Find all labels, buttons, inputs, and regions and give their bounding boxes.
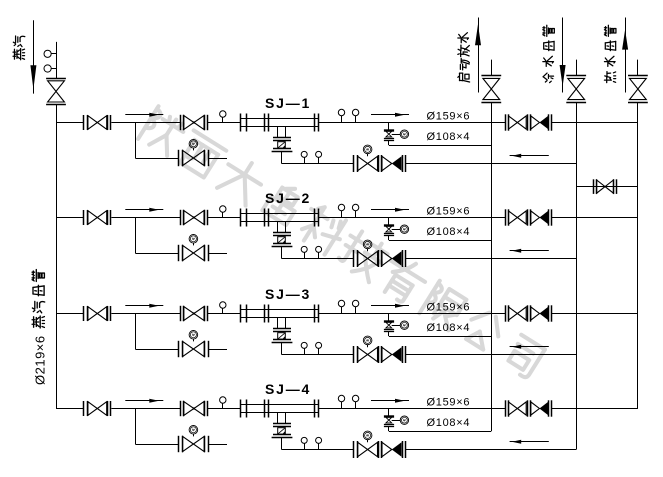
- wire: row1 drain valve to bubble: [392, 134, 401, 136]
- flow arrow right row1 (outlet): [371, 113, 409, 117]
- wire: row2 main pipe seg B: [111, 217, 180, 219]
- wire: row3 lower water line seg A: [282, 354, 354, 356]
- wire: row4 main pipe seg D: [319, 408, 506, 410]
- valve GV1a: row1 inlet gate valve: [84, 115, 111, 130]
- label: SJ-3 tag: [265, 286, 311, 302]
- label: SJ-4 tag: [265, 381, 311, 397]
- wire: row2 main pipe seg E: [551, 217, 638, 219]
- wire: row2 HX drain twin drop: [278, 221, 286, 232]
- wire: row2 bypass line left: [135, 253, 178, 255]
- wire: stub above cold water main (冷水母管) valve: [576, 60, 578, 76]
- wire: row2 relief stem upper: [388, 218, 390, 225]
- valve CK4a: row4 water line check valve: [382, 441, 406, 458]
- leader line for hot water main (热水母管): [625, 18, 627, 93]
- leader line for cold water main (冷水母管): [562, 18, 564, 93]
- wire: row3 drain valve to bubble: [392, 325, 401, 327]
- instrument bubble row2 on drain valve: [400, 225, 408, 233]
- svg-text:Ø159×6: Ø159×6: [427, 205, 471, 217]
- wire: row4 drain valve to bubble: [392, 420, 401, 422]
- steam trap row1 flanges and body: [272, 138, 293, 152]
- wire: row4 relief stem lower: [388, 426, 390, 431]
- wire: row1 main pipe seg B: [111, 122, 180, 124]
- wire: row1 main pipe seg C: [208, 122, 241, 124]
- svg-text:Ø108×4: Ø108×4: [427, 417, 471, 429]
- label: steam (蒸汽) vertical text: [13, 36, 25, 60]
- flow arrow right row1 (inlet): [125, 113, 163, 117]
- valve GV3a: row3 inlet gate valve: [84, 306, 111, 321]
- svg-text:SJ—2: SJ—2: [265, 190, 311, 206]
- watermark: 陕西大禹科技有限公司 diagonal: [138, 106, 545, 379]
- instrument bubble row3 on drain valve: [400, 321, 408, 329]
- valve CK4b: row4 outlet check valve: [531, 400, 552, 416]
- valve CK2a: row2 water line check valve: [382, 250, 406, 267]
- wire: row1 relief stem upper: [388, 123, 390, 130]
- label: Ø108×4 row2: [427, 226, 471, 238]
- label: SJ-1 tag: [265, 95, 311, 111]
- wire: stub gauge lower to pipe: [51, 68, 56, 70]
- flow arrow right row4 (outlet): [371, 399, 409, 403]
- wire: row2 lower water line seg A: [282, 258, 354, 260]
- svg-text:Ø108×4: Ø108×4: [427, 131, 471, 143]
- valve CK1b: row1 outlet check valve: [531, 114, 552, 130]
- valve CV2: row2 regulating valve: [181, 210, 208, 225]
- valve GV2b: row2 outlet gate valve: [506, 209, 531, 225]
- actuator M on row3 water motor valve: [363, 336, 372, 347]
- flow arrow right row2 (outlet): [371, 208, 409, 212]
- actuator M on row4 water motor valve: [363, 431, 372, 442]
- wire: row1 main pipe seg E: [551, 122, 638, 124]
- wire: row1 bypass line right end: [208, 158, 227, 160]
- actuator M on row2 bypass valve: [189, 235, 198, 246]
- gauge row2 lower line 2: [316, 246, 322, 258]
- wire: startup drain column: [491, 102, 493, 431]
- valve RV2: row2 small drain valve: [384, 226, 394, 236]
- flow arrow up on hot water main (热水母管) leader: [622, 30, 628, 50]
- wire: row3 Ø108 drain line: [389, 336, 492, 338]
- wire: row4 lower water line seg A: [282, 449, 354, 451]
- wire: row3 relief stem upper: [388, 314, 390, 321]
- wire: row1 bypass line left: [135, 158, 178, 160]
- wire: row4 main pipe seg E: [551, 408, 638, 410]
- wire: stub above startup drain (启动放水) valve: [491, 60, 493, 76]
- valve V0: steam inlet gate valve (vertical): [46, 79, 66, 105]
- wire: stub gauge upper to pipe: [51, 53, 56, 55]
- valve CK3b: row3 outlet check valve: [531, 305, 552, 321]
- wire: row4 trap outlet drop: [281, 437, 283, 449]
- valve BV3: row3 motor bypass valve: [179, 341, 209, 357]
- leader line for steam label: [33, 20, 35, 93]
- valve GV3b: row3 outlet gate valve: [506, 305, 531, 321]
- wire: row1 main pipe seg D: [319, 122, 506, 124]
- wire: row1 lower water line seg A: [282, 163, 354, 165]
- label: cold water main (冷水母管) vertical text: [543, 25, 554, 82]
- gauge row1 outlet 2: [352, 109, 358, 122]
- valve MV1: row1 motor valve on water line: [354, 155, 382, 172]
- gauge PI row4 after regulating valve: [220, 397, 226, 409]
- gauge row4 outlet 2: [352, 395, 358, 408]
- valve GV4a: row4 inlet gate valve: [84, 401, 111, 416]
- gauge row1 lower line 2: [316, 151, 322, 163]
- valve GV1b: row1 outlet gate valve: [506, 114, 531, 130]
- instrument bubble row4 on drain valve: [400, 416, 408, 424]
- wire: row4 Ø108 drain line: [389, 431, 492, 433]
- valve BV1: row1 motor bypass valve: [179, 150, 209, 166]
- label: hot water main (热水母管) vertical text: [604, 25, 615, 82]
- wire: row4 bypass line right end: [208, 444, 227, 446]
- flow arrow left row4 (cold water in): [510, 440, 549, 444]
- wire: row2 bypass line right end: [208, 253, 227, 255]
- wire: row2 relief stem lower: [388, 235, 390, 240]
- valve CK1a: row1 water line check valve: [382, 155, 406, 172]
- wire: row3 main pipe seg A: [56, 313, 83, 315]
- valve CV3: row3 regulating valve: [181, 306, 208, 321]
- wire: row2 lower water line seg B: [405, 258, 576, 260]
- gauge row1 lower line 1: [301, 151, 307, 163]
- flow arrow right row3 (inlet): [125, 304, 163, 308]
- label: SJ-2 tag: [265, 190, 311, 206]
- wire: row4 lower water line seg B: [405, 449, 576, 451]
- gauge PI row3 after regulating valve: [220, 302, 226, 314]
- svg-text:Ø108×4: Ø108×4: [427, 322, 471, 334]
- valve GV2a: row2 inlet gate valve: [84, 210, 111, 225]
- gauge row2 outlet 2: [352, 204, 358, 217]
- wire: row4 HX drain twin drop: [278, 412, 286, 423]
- svg-text:Ø159×6: Ø159×6: [427, 396, 471, 408]
- flow arrow left row1 (cold water in): [510, 154, 549, 158]
- valve: hot water main (热水母管) isolation valve (vertical): [628, 76, 648, 103]
- valve RV4: row4 small drain valve: [384, 417, 394, 427]
- wire: row1 relief stem lower: [388, 140, 390, 145]
- gauge row4 lower line 1: [301, 437, 307, 449]
- svg-text:Ø159×6: Ø159×6: [427, 110, 471, 122]
- wire: row4 bypass line left: [135, 444, 178, 446]
- heat exchanger SJ-3 body: [240, 305, 318, 323]
- wire: row3 relief stem lower: [388, 331, 390, 336]
- wire: row2 drain valve to bubble: [392, 229, 401, 231]
- svg-text:Ø108×4: Ø108×4: [427, 226, 471, 238]
- wire: row3 bypass branch down: [135, 314, 137, 350]
- valve: cold water main (冷水母管) isolation valve (vertical): [566, 76, 586, 103]
- gauge row2 outlet 1: [338, 204, 344, 217]
- wire: row3 bypass line right end: [208, 349, 227, 351]
- label: Ø159×6 row4: [427, 396, 471, 408]
- gauge row3 lower line 2: [316, 342, 322, 354]
- valve CK3a: row3 water line check valve: [382, 346, 406, 363]
- wire: row2 Ø108 drain line: [389, 240, 492, 242]
- wire: cold water main column: [576, 102, 578, 449]
- flow arrow up on startup drain (启动放水) leader: [475, 24, 481, 45]
- label: Ø108×4 row3: [427, 322, 471, 334]
- flow arrow right row2 (inlet): [125, 208, 163, 212]
- svg-text:SJ—1: SJ—1: [265, 95, 311, 111]
- wire: row4 relief stem upper: [388, 409, 390, 416]
- instrument bubble row1 on drain valve: [400, 130, 408, 138]
- gauge row3 outlet 1: [338, 300, 344, 313]
- wire: row4 main pipe seg B: [111, 408, 180, 410]
- wire: row1 main pipe seg A: [56, 122, 83, 124]
- heat exchanger SJ-4 body: [240, 400, 318, 418]
- wire: row2 main pipe seg D: [319, 217, 506, 219]
- valve MV3: row3 motor valve on water line: [354, 346, 382, 363]
- steam trap row4 flanges and body: [272, 424, 293, 438]
- label: Ø219×6 steam main (蒸汽母管) vertical: [32, 270, 47, 386]
- svg-text:Ø219×6: Ø219×6: [33, 335, 48, 385]
- valve: mains bypass gate valve: [594, 179, 617, 194]
- gauge row4 lower line 2: [316, 437, 322, 449]
- wire: row1 bypass branch down: [135, 123, 137, 159]
- valve CK2b: row2 outlet check valve: [531, 209, 552, 225]
- valve BV4: row4 motor bypass valve: [179, 436, 209, 452]
- svg-text:SJ—4: SJ—4: [265, 381, 311, 397]
- valve CV4: row4 regulating valve: [181, 401, 208, 416]
- actuator M on row1 water motor valve: [363, 145, 372, 156]
- wire: row3 bypass line left: [135, 349, 178, 351]
- wire: row2 main pipe seg C: [208, 217, 241, 219]
- flow arrow right row4 (inlet): [125, 399, 163, 403]
- wire: hot water main column: [637, 102, 639, 408]
- heat exchanger SJ-2 body: [240, 209, 318, 227]
- actuator M on row1 bypass valve: [189, 140, 198, 151]
- valve GV4b: row4 outlet gate valve: [506, 400, 531, 416]
- flow arrow down on cold water main (冷水母管) leader: [560, 65, 566, 87]
- valve RV1: row1 small drain valve: [384, 131, 394, 141]
- svg-text:SJ—3: SJ—3: [265, 286, 311, 302]
- label: Ø159×6 row2: [427, 205, 471, 217]
- wire: row4 main pipe seg C: [208, 408, 241, 410]
- label: Ø159×6 row1: [427, 110, 471, 122]
- label: Ø159×6 row3: [427, 301, 471, 313]
- gauge row3 lower line 1: [301, 342, 307, 354]
- flow arrow down on steam leader: [30, 65, 36, 89]
- actuator M on row4 bypass valve: [189, 426, 198, 437]
- flow arrow left row2 (cold water in): [510, 249, 549, 253]
- wire: row2 main pipe seg A: [56, 217, 83, 219]
- valve MV2: row2 motor valve on water line: [354, 250, 382, 267]
- wire: row1 lower water line seg B: [405, 163, 576, 165]
- label: startup drain (启动放水) vertical text: [458, 33, 470, 82]
- actuator M on row2 water motor valve: [363, 240, 372, 251]
- wire: row2 bypass branch down: [135, 218, 137, 254]
- flow arrow left row3 (cold water in): [510, 345, 549, 349]
- wire: row3 main pipe seg E: [551, 313, 638, 315]
- wire: row4 main pipe seg A: [56, 408, 83, 410]
- gauge PI on steam inlet (lower): [44, 65, 51, 72]
- wire: row1 Ø108 drain line: [389, 145, 492, 147]
- wire: row3 main pipe seg B: [111, 313, 180, 315]
- wire: steam main vertical pipe: [56, 105, 58, 409]
- gauge PI row2 after regulating valve: [220, 206, 226, 218]
- wire: row1 HX drain twin drop: [278, 126, 286, 137]
- wire: row4 bypass branch down: [135, 409, 137, 445]
- gauge row3 outlet 2: [352, 300, 358, 313]
- valve RV3: row3 small drain valve: [384, 322, 394, 332]
- leader line for startup drain (启动放水): [478, 18, 480, 93]
- valve MV4: row4 motor valve on water line: [354, 441, 382, 458]
- wire: row3 HX drain twin drop: [278, 317, 286, 328]
- steam trap row2 flanges and body: [272, 233, 293, 247]
- steam trap row3 flanges and body: [272, 329, 293, 343]
- valve BV2: row2 motor bypass valve: [179, 245, 209, 261]
- wire: row3 trap outlet drop: [281, 342, 283, 354]
- wire: row3 main pipe seg C: [208, 313, 241, 315]
- gauge PI on steam inlet (upper): [44, 50, 51, 57]
- valve CV1: row1 regulating valve: [181, 115, 208, 130]
- wire: row3 main pipe seg D: [319, 313, 506, 315]
- label: Ø108×4 row1: [427, 131, 471, 143]
- wire: cold-hot mains bypass line: [576, 186, 638, 188]
- svg-text:Ø159×6: Ø159×6: [427, 301, 471, 313]
- gauge PI row1 after regulating valve: [220, 111, 226, 123]
- actuator M on row3 bypass valve: [189, 331, 198, 342]
- wire: row2 trap outlet drop: [281, 246, 283, 258]
- wire: stub above hot water main (热水母管) valve: [637, 60, 639, 76]
- wire: steam inlet pipe vertical: [56, 42, 58, 79]
- gauge row4 outlet 1: [338, 395, 344, 408]
- wire: row1 trap outlet drop: [281, 151, 283, 163]
- flow arrow right row3 (outlet): [371, 304, 409, 308]
- gauge row1 outlet 1: [338, 109, 344, 122]
- valve: startup drain (启动放水) isolation valve (vertical): [481, 76, 501, 103]
- wire: row3 lower water line seg B: [405, 354, 576, 356]
- heat exchanger SJ-1 body: [240, 114, 318, 132]
- gauge row2 lower line 1: [301, 246, 307, 258]
- label: Ø108×4 row4: [427, 417, 471, 429]
